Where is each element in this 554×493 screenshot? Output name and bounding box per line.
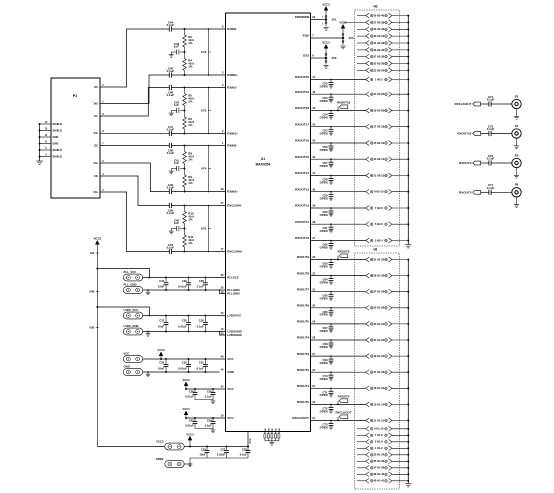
svg-text:P5: P5 (515, 153, 519, 157)
svg-text:P2: P2 (73, 94, 77, 98)
svg-text:35 H1-36: 35 H1-36 (373, 459, 384, 463)
capacitor C59 OPEN (330, 192, 332, 195)
wire (392, 21, 408, 23)
wire H1 ground bus (407, 260, 409, 484)
U1 pin VCC bottom (247, 432, 249, 447)
svg-text:7 H1-8: 7 H1-8 (375, 433, 383, 437)
header H1 pin row 11-12 (366, 418, 370, 423)
wire VCC3 bus (96, 248, 98, 447)
svg-text:GND: GND (53, 135, 59, 139)
svg-text:OPEN: OPEN (320, 329, 328, 333)
capacitor C69 OPEN (330, 356, 332, 359)
svg-text:RXIN0+: RXIN0+ (227, 73, 238, 77)
capacitor C29 10uF (206, 447, 208, 451)
wire (392, 56, 408, 58)
svg-text:A30: A30 (90, 252, 95, 255)
svg-text:1 H1-2: 1 H1-2 (375, 446, 383, 450)
svg-text:SHIELD: SHIELD (53, 129, 63, 133)
node RXOUT9 tag (337, 256, 339, 260)
header H1 pin row 15-16 (366, 386, 370, 391)
pad VCC3 (165, 443, 184, 450)
svg-text:A75: A75 (201, 227, 207, 231)
svg-text:P3: P3 (515, 94, 519, 98)
svg-text:A74: A74 (201, 167, 207, 171)
svg-text:RXOUT7: RXOUT7 (297, 287, 310, 291)
ground (323, 27, 328, 29)
wire (172, 133, 226, 135)
svg-text:LVDS_GND: LVDS_GND (124, 324, 139, 328)
svg-text:LVDSGND: LVDSGND (227, 333, 242, 337)
svg-text:RXIN0-: RXIN0- (227, 27, 237, 31)
capacitor C50 0.1uF (168, 203, 170, 208)
wire (392, 460, 408, 462)
svg-text:EQS: EQS (303, 34, 309, 38)
node A30 (96, 252, 99, 254)
svg-text:0.1uF: 0.1uF (167, 128, 175, 132)
wire (311, 142, 366, 144)
svg-text:C27: C27 (220, 447, 225, 451)
svg-text:13 H2-14: 13 H2-14 (373, 157, 384, 161)
svg-text:A70: A70 (201, 50, 207, 54)
svg-text:D0+: D0+ (94, 102, 99, 106)
svg-text:D0-: D0- (94, 85, 98, 89)
svg-text:VCC: VCC (248, 438, 252, 444)
wire shield bus (39, 124, 41, 161)
svg-text:LVDSVCC: LVDSVCC (227, 314, 242, 318)
svg-text:10uF: 10uF (200, 453, 207, 457)
header H2 pin row 9-10 (366, 189, 370, 194)
wire (195, 428, 213, 430)
capacitor C73 OPEN (330, 421, 332, 424)
junction (184, 145, 186, 147)
svg-text:GND: GND (268, 428, 270, 433)
wire (172, 145, 226, 147)
wire (392, 240, 408, 242)
capacitor C37 10nF (165, 316, 167, 323)
wire (195, 399, 213, 401)
capacitor C58 OPEN (330, 176, 332, 179)
svg-text:0.1uF: 0.1uF (487, 127, 495, 131)
header H1 pin row 17-18 (366, 370, 370, 375)
svg-text:GND: GND (265, 428, 267, 433)
capacitor C53 OPEN (330, 94, 332, 97)
svg-text:0.1uF: 0.1uF (487, 157, 495, 161)
wire CK- to C50 (100, 176, 169, 206)
wire (186, 417, 226, 419)
svg-text:RXCLKOUT: RXCLKOUT (335, 411, 351, 415)
svg-text:GND: GND (227, 370, 235, 374)
svg-text:CK+: CK+ (93, 190, 99, 194)
svg-text:RXOUT2: RXOUT2 (297, 368, 310, 372)
svg-text:0.01uF: 0.01uF (185, 424, 194, 428)
svg-text:A4B: A4B (89, 290, 94, 293)
svg-text:OPEN: OPEN (320, 264, 328, 268)
wire (392, 207, 408, 209)
svg-text:OPEN: OPEN (320, 229, 328, 233)
capacitor C35 0.01uF (188, 316, 190, 323)
header H2 pin row 23-24 (357, 69, 366, 71)
svg-text:JU1: JU1 (331, 18, 337, 22)
svg-text:25 H1-26: 25 H1-26 (373, 306, 384, 310)
wire (392, 454, 408, 456)
svg-text:0.1uF: 0.1uF (167, 246, 175, 250)
capacitor C71 OPEN (330, 388, 332, 391)
svg-text:OPEN: OPEN (320, 377, 328, 381)
capacitor C68 OPEN (330, 340, 332, 343)
svg-text:13 H1-14: 13 H1-14 (373, 402, 384, 406)
svg-text:OPEN: OPEN (320, 164, 328, 168)
svg-text:9 H1-10: 9 H1-10 (374, 427, 384, 431)
wire (392, 93, 408, 95)
wire (392, 126, 408, 128)
wire (392, 355, 408, 357)
node A70 (208, 29, 210, 75)
capacitor C36 0.1uF (205, 316, 207, 323)
wire (143, 277, 226, 279)
svg-text:GND2: GND2 (156, 457, 164, 461)
svg-text:D1+: D1+ (94, 131, 99, 135)
svg-text:OPEN: OPEN (320, 393, 328, 397)
svg-text:0.1uF: 0.1uF (167, 151, 175, 155)
wire (392, 323, 408, 325)
svg-text:RXIN1+: RXIN1+ (227, 132, 238, 136)
svg-text:0.1uF: 0.1uF (167, 186, 175, 190)
resistor R11 49.9 1% (184, 229, 186, 236)
svg-text:RXOUT15: RXOUT15 (295, 155, 309, 159)
wire (311, 191, 366, 193)
node A75 (208, 206, 210, 252)
svg-text:7 H2-8: 7 H2-8 (375, 206, 383, 210)
header H2 pin row 37-38 (344, 21, 366, 23)
svg-text:GND: GND (275, 428, 277, 433)
header H2 pin row 17-18 (366, 124, 370, 129)
svg-text:11 H2-12: 11 H2-12 (374, 173, 385, 177)
wire to LVDSVCC row (97, 307, 149, 316)
wire (184, 129, 186, 134)
pad LVDS_GND (123, 328, 142, 335)
wire (143, 371, 220, 373)
svg-text:RXOUT5: RXOUT5 (297, 320, 310, 324)
svg-text:RXOUT20: RXOUT20 (295, 75, 309, 79)
wire (311, 323, 366, 325)
svg-text:RXOUT6: RXOUT6 (297, 304, 310, 308)
svg-text:40 H1-41: 40 H1-41 (373, 479, 384, 483)
svg-text:RXOUT11: RXOUT11 (295, 220, 309, 224)
capacitor C56 0.1uF (212, 389, 214, 393)
svg-text:5 H2-6: 5 H2-6 (375, 222, 383, 226)
ground (405, 244, 411, 246)
capacitor C66 OPEN (330, 308, 332, 311)
svg-text:0.01uF: 0.01uF (178, 324, 187, 328)
ground (516, 168, 518, 176)
wire (143, 358, 226, 360)
svg-text:VCC: VCC (124, 351, 130, 355)
header H1 outline (355, 253, 400, 489)
header H2 pin row 7-8 (366, 206, 370, 211)
svg-text:10nF: 10nF (158, 324, 165, 328)
svg-text:10nF: 10nF (158, 285, 165, 289)
wire (311, 291, 366, 293)
svg-text:25 H2-26: 25 H2-26 (373, 62, 384, 66)
node RXOUT0 tag (337, 401, 339, 405)
header H1 pin row 5-6 (357, 441, 366, 443)
node A4B (96, 291, 99, 293)
resistor R5 49.9 1% (184, 88, 186, 94)
wire (392, 447, 408, 449)
wire (190, 457, 248, 459)
wire (392, 428, 408, 430)
svg-text:0.1uF: 0.1uF (205, 424, 212, 428)
capacitor C55 OPEN (330, 127, 332, 130)
svg-text:39 H1-40: 39 H1-40 (373, 472, 384, 476)
header H1 pin row 1-2 (357, 447, 366, 449)
wire (184, 224, 186, 229)
wire (392, 175, 408, 177)
capacitor C52 OPEN (330, 80, 332, 83)
power VCC3 arrow (189, 440, 191, 443)
svg-text:OPEN: OPEN (320, 313, 328, 317)
svg-text:RXOUT19: RXOUT19 (295, 90, 309, 94)
wire (481, 191, 489, 193)
svg-text:RXOUT9: RXOUT9 (459, 161, 472, 165)
wire (392, 158, 408, 160)
svg-text:SHIELD: SHIELD (53, 155, 63, 159)
svg-text:0.1uF: 0.1uF (197, 285, 204, 289)
svg-text:PWRDWN: PWRDWN (295, 15, 309, 19)
header H2 pin row 21-22 (366, 92, 370, 97)
op-amp U1 MAX9254 deserializer (226, 13, 311, 432)
svg-text:OPEN: OPEN (320, 115, 328, 119)
capacitor C41 center tap (180, 168, 185, 170)
capacitor C62 OPEN (330, 241, 332, 244)
svg-text:VCC3: VCC3 (156, 440, 164, 444)
wire (392, 275, 408, 277)
wire (491, 162, 512, 164)
ground (516, 197, 518, 205)
svg-text:33 H1-34: 33 H1-34 (373, 453, 384, 457)
header H1 pin row 31-32 (366, 257, 370, 262)
wire (186, 388, 226, 390)
P2 left pins (shield/gnd) (40, 123, 52, 125)
wire (392, 291, 408, 293)
svg-text:VCC3: VCC3 (182, 407, 190, 411)
ground (340, 45, 345, 47)
svg-text:29 H1-30: 29 H1-30 (373, 274, 384, 278)
svg-text:VCC: VCC (227, 387, 234, 391)
svg-text:1%: 1% (188, 41, 193, 45)
svg-text:OPEN: OPEN (320, 213, 328, 217)
wire (481, 133, 489, 135)
svg-text:H1: H1 (373, 248, 377, 252)
wire (392, 69, 408, 71)
capacitor C70 OPEN (330, 372, 332, 375)
svg-text:C32: C32 (159, 361, 164, 365)
ground (170, 169, 172, 172)
wire to PLLVCC row (97, 269, 149, 278)
wire (311, 355, 366, 357)
svg-text:RXOUT13: RXOUT13 (295, 187, 309, 191)
svg-text:C30: C30 (182, 361, 187, 365)
svg-text:RXCLKOUT: RXCLKOUT (292, 416, 309, 420)
svg-text:35 H2-36: 35 H2-36 (373, 27, 384, 31)
svg-text:RXOUT1: RXOUT1 (297, 384, 310, 388)
svg-text:CK-: CK- (94, 174, 99, 178)
wire (311, 259, 366, 261)
ground (405, 483, 411, 485)
svg-text:0.1uF: 0.1uF (167, 23, 175, 27)
svg-text:D2+: D2+ (94, 161, 99, 165)
wire (172, 205, 226, 207)
svg-text:RXOUT18: RXOUT18 (337, 101, 351, 105)
header H1 pin row 29-30 (366, 273, 370, 278)
svg-text:VCC3: VCC3 (322, 3, 330, 7)
svg-text:37 H2-38: 37 H2-38 (373, 20, 384, 24)
wire (392, 142, 408, 144)
svg-text:OPEN: OPEN (320, 281, 328, 285)
svg-text:VCC3: VCC3 (182, 378, 190, 382)
header H1 pin row 23-24 (366, 321, 370, 326)
wire (143, 289, 220, 291)
resistor R6 49.9 1% (184, 111, 186, 118)
header H2 pin row 5-6 (366, 222, 370, 227)
header H2 outline (355, 10, 400, 246)
header H2 pin row 27-28 (357, 56, 366, 58)
svg-text:C31: C31 (199, 361, 204, 365)
svg-text:D1-: D1- (94, 114, 98, 118)
svg-text:VCC3: VCC3 (322, 41, 330, 45)
wire (392, 28, 408, 30)
node RXCLKOUT tag (337, 417, 339, 421)
ground (516, 109, 518, 117)
wire (311, 223, 366, 225)
capacitor C32 10nF (165, 359, 167, 365)
svg-text:JU3: JU3 (348, 36, 354, 40)
svg-text:A5B: A5B (89, 326, 94, 329)
ground (212, 429, 214, 431)
svg-text:GND: GND (124, 364, 130, 368)
capacitor C51 0.1uF (168, 249, 170, 254)
svg-text:RXOUT12: RXOUT12 (295, 204, 309, 208)
pad GND (123, 369, 142, 376)
svg-text:OPEN: OPEN (320, 409, 328, 413)
wire (172, 251, 226, 253)
wire (392, 35, 408, 37)
svg-text:C29: C29 (201, 447, 206, 451)
wire (392, 49, 408, 51)
svg-text:C38: C38 (199, 279, 204, 283)
svg-text:VCC3: VCC3 (157, 348, 165, 352)
junction (184, 87, 186, 89)
svg-text:1 H2-2: 1 H2-2 (375, 77, 383, 81)
capacitor C27 0.33uF (226, 447, 228, 451)
capacitor C39 0.01uF (188, 278, 190, 283)
wire (220, 289, 226, 291)
svg-text:OPEN: OPEN (320, 361, 328, 365)
capacitor C31 0.1uF (205, 359, 207, 365)
svg-text:31 H2-32: 31 H2-32 (373, 41, 384, 45)
wire (311, 110, 366, 112)
header H1 pin row 37-38 (357, 467, 366, 469)
capacitor C56 OPEN (330, 143, 332, 146)
ground (147, 372, 149, 374)
power VCC3 arrow (96, 244, 98, 247)
ground (170, 111, 172, 114)
svg-text:RXOUT14: RXOUT14 (295, 171, 309, 175)
svg-text:GND: GND (279, 428, 281, 433)
svg-text:VCC: VCC (227, 357, 234, 361)
header H2 pin row 15-16 (366, 141, 370, 146)
power VCC3 arrow (185, 386, 187, 389)
svg-text:C39: C39 (182, 279, 187, 283)
wire (491, 133, 512, 135)
wire (184, 71, 186, 76)
wire VCC3 bottom rail (97, 446, 165, 448)
wire (392, 63, 408, 65)
wire (392, 110, 408, 112)
svg-text:27 H1-28: 27 H1-28 (373, 290, 384, 294)
wire (311, 420, 366, 422)
header H1 pin row 19-20 (366, 354, 370, 359)
svg-text:C56: C56 (207, 389, 212, 393)
node A74 (208, 146, 210, 192)
wire (392, 191, 408, 193)
wire (184, 47, 186, 52)
wire D0+ to C45 (100, 75, 169, 104)
wire (311, 79, 366, 81)
svg-text:19 H1-20: 19 H1-20 (373, 354, 384, 358)
svg-text:1%: 1% (188, 241, 193, 245)
svg-text:RXIN2+: RXIN2+ (227, 190, 238, 194)
header H1 pin row 27-28 (366, 289, 370, 294)
svg-text:17 H2-18: 17 H2-18 (373, 125, 384, 129)
svg-text:0.1uF: 0.1uF (167, 69, 175, 73)
svg-text:D2-: D2- (94, 144, 98, 148)
jumper JU2 (325, 48, 327, 51)
wire (392, 434, 408, 436)
svg-text:RXOUT18: RXOUT18 (295, 106, 309, 110)
svg-text:H2: H2 (373, 5, 377, 9)
wire (392, 15, 408, 17)
capacitor C48 0.1uF (168, 143, 170, 148)
wire (392, 441, 408, 443)
wire (311, 339, 366, 341)
svg-text:0.1uF: 0.1uF (167, 93, 175, 97)
svg-text:RXCLKIN-: RXCLKIN- (227, 204, 241, 208)
resistor R4 49.9 1% (184, 52, 186, 59)
svg-text:JU2: JU2 (331, 56, 337, 60)
svg-text:9 H2-10: 9 H2-10 (374, 190, 384, 194)
header H2 pin row 11-12 (366, 173, 370, 178)
svg-text:OPEN: OPEN (320, 132, 328, 136)
svg-text:39 H2-40: 39 H2-40 (373, 14, 384, 18)
wire (311, 207, 366, 209)
ground (323, 65, 328, 67)
resistor R2 49.9 1% (184, 29, 186, 35)
capacitor C38 0.1uF (205, 278, 207, 283)
svg-text:1%: 1% (188, 123, 193, 127)
header H2 pin row 31-32 (357, 42, 366, 44)
wire (172, 87, 226, 89)
ground (189, 458, 191, 464)
capacitor C54 OPEN (330, 111, 332, 114)
wire (184, 164, 186, 169)
svg-text:C54: C54 (207, 418, 212, 422)
pad PLL_GND (123, 287, 142, 294)
svg-text:1nF: 1nF (174, 103, 179, 107)
ground (212, 400, 214, 402)
header H2 pin row 3-4 (366, 238, 370, 243)
power VCC3 arrow (160, 356, 162, 359)
